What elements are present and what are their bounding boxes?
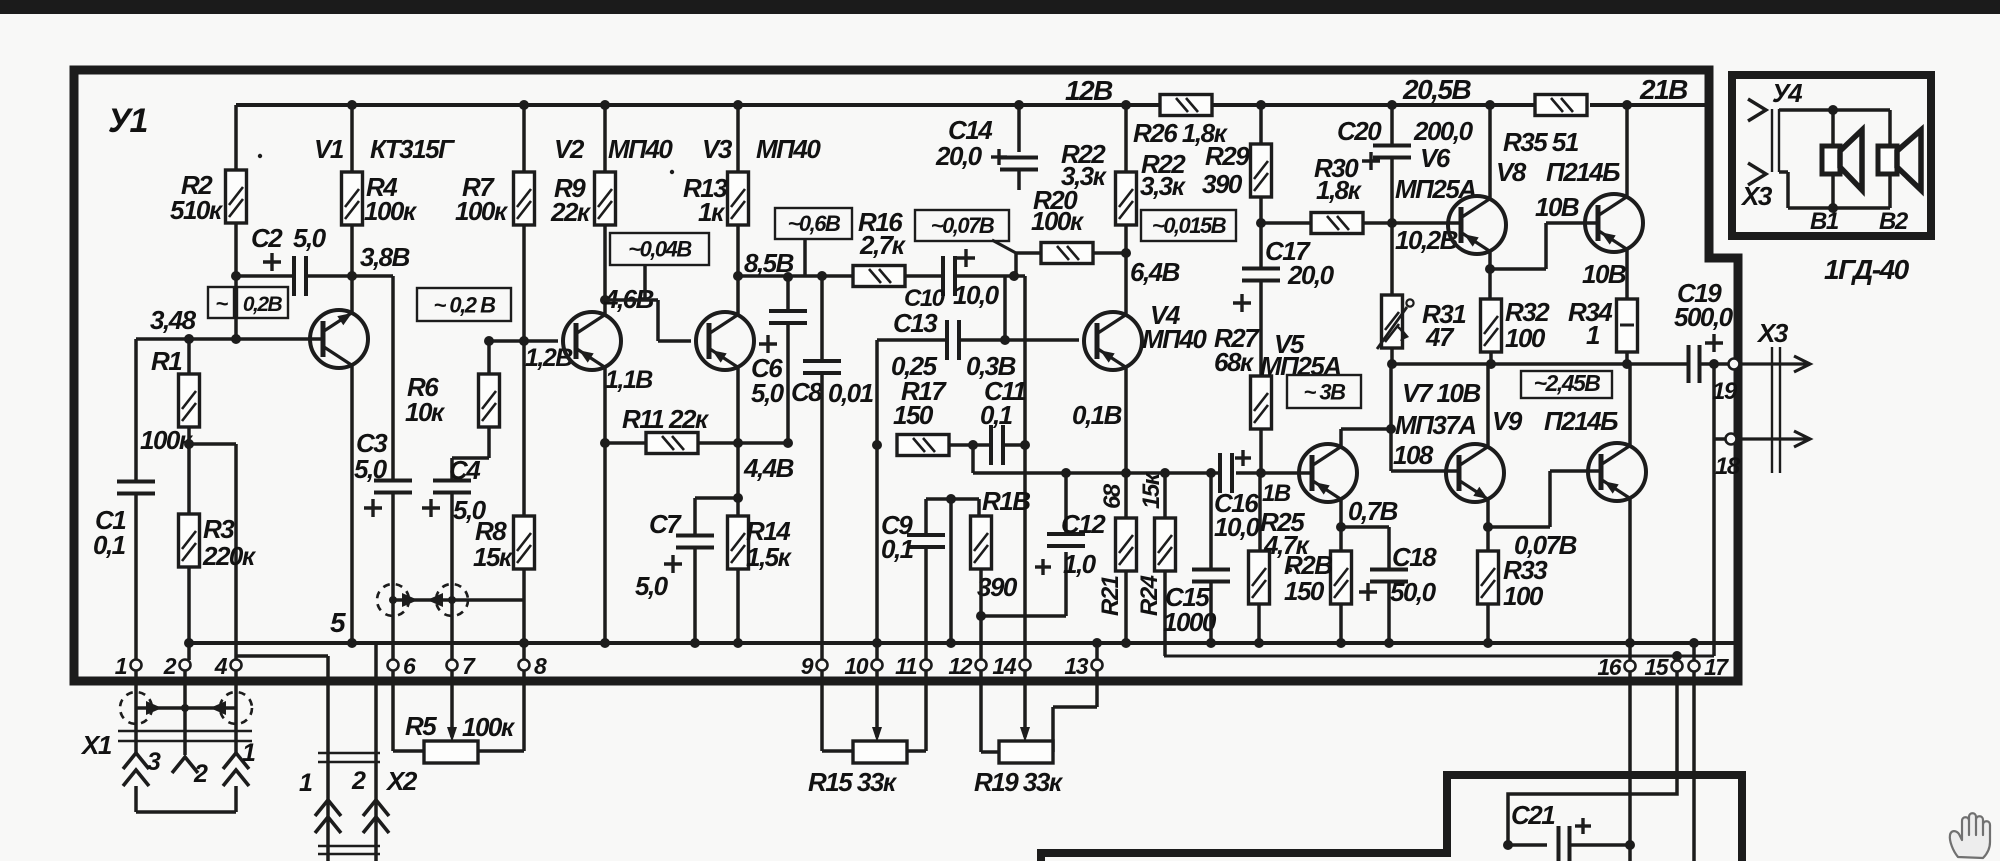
label R13 1k [683,173,728,227]
label C6 5,0 plus [751,335,785,408]
label R18 390 [977,486,1030,602]
node C11 left [968,440,978,450]
svg-text:10,0: 10,0 [1214,512,1261,542]
wire V7 base lead [1391,469,1459,473]
boxed label 0,2В [208,287,288,318]
svg-text:Х2: Х2 [385,766,418,796]
wire R22 branch from rail [1124,105,1128,172]
svg-text:6,4В: 6,4В [1130,257,1180,287]
svg-text:1,2В: 1,2В [525,344,573,372]
pin 1 circle [131,660,142,671]
wire C20 branch from rail [1390,105,1394,146]
node R14 bus [733,638,743,648]
wire R8 bottom to contact [522,569,526,660]
wire R11 right lead [698,441,788,445]
label C14 20,0 plus [935,115,1007,171]
wire 0,04V box stub [643,265,647,300]
svg-text:R15 33к: R15 33к [808,767,898,797]
wire V2 base line [489,339,558,343]
node R28 bus [1336,638,1346,648]
module box U1 border [74,70,1738,681]
wire C20 bottom to 10,2V node [1390,158,1394,223]
capacitor C20 [1373,146,1411,158]
svg-text:20,0: 20,0 [935,141,983,171]
node C7 tap [733,493,743,503]
capacitor C19 series [1689,345,1700,383]
svg-text:3,8В: 3,8В [360,242,410,272]
node R1/R3/pin4 junction [184,439,194,449]
arrow output 19 [1740,356,1810,372]
wire X1 contact link [136,706,236,710]
node C10 out [1009,271,1019,281]
svg-text:У1: У1 [108,102,148,140]
resistor R18 [971,516,992,569]
svg-text:0,1: 0,1 [93,530,126,560]
svg-text:15к: 15к [1138,471,1165,509]
label V4 MP40 [1142,300,1207,354]
label R2 510k [170,170,224,225]
svg-text:10к: 10к [405,397,446,427]
wire R1 top lead [187,339,191,374]
svg-text:R21: R21 [1097,575,1124,616]
svg-text:С18: С18 [1392,542,1437,572]
resistor R33 [1478,551,1499,604]
node 8,5V [733,271,743,281]
wire C19 out [1700,362,1728,366]
potentiometer R5 [424,727,478,763]
svg-text:~: ~ [215,291,228,316]
wire pin13 stub [1092,638,1102,660]
capacitor C2 [294,256,306,296]
wire R20 right lead [1093,251,1126,255]
node V2 emitter bus [600,638,610,648]
wire C17 bottom to R27 [1259,281,1263,376]
svg-text:МП40: МП40 [756,134,821,164]
wire B1 column [1831,110,1835,208]
capacitor C21 series [1559,826,1570,861]
svg-text:~ 3В: ~ 3В [1303,379,1346,404]
wire V3 emitter chain [736,367,740,516]
label R1 100k [140,346,194,455]
label C3 5,0 plus [354,428,388,517]
wire V2 emitter to bus [603,367,607,643]
node base/R1 junction [184,334,194,344]
node V4 emitter y473 [1121,468,1131,478]
potentiometer R19 [999,727,1053,763]
node rail/C14 [1014,100,1024,110]
capacitor C6 [769,311,807,323]
wire R2 bottom to base node [234,223,238,339]
wire V6 emitter [1488,249,1492,299]
arrow output 18 [1737,431,1810,447]
svg-text:5,0: 5,0 [354,454,388,484]
node R6 top [484,336,494,346]
wire R4 branch from rail [350,105,354,172]
svg-text:В1: В1 [1810,208,1839,235]
svg-text:R3: R3 [203,514,235,544]
capacitor C1 [117,482,155,494]
wire pin15 path to C21 [1508,671,1677,845]
svg-text:3,48: 3,48 [150,305,197,335]
wire R24 top lead [1163,473,1167,518]
wire R31 bottom lead [1390,348,1394,364]
pin 2 circle [180,660,191,671]
label C11 0,1 0,3В [966,351,1026,430]
wire pin4 jog to X2 [236,656,328,861]
transistor V4 [1084,312,1142,370]
svg-text:R1: R1 [151,346,182,376]
hand cursor [1950,813,1990,858]
label C8 0,01 [791,377,874,408]
contact switch right circle [436,584,468,616]
svg-text:3,3к: 3,3к [1140,171,1187,201]
wire R17 right to C11 [949,443,991,447]
wire V6 to V8 base jog [1490,223,1598,269]
node C19 out [1709,359,1719,369]
svg-text:V2: V2 [554,134,585,164]
svg-text:Х3: Х3 [1756,318,1789,348]
wire R28 leads [1339,527,1343,643]
label C16 10,0 plus [1214,450,1261,542]
wire R21 bottom to bus [1124,571,1128,643]
boxed label ~0,2 В [417,288,511,321]
node R18/C12 link [976,611,986,621]
wire R1 bottom to R3 top [187,427,191,514]
wire pin2 tail [183,670,187,755]
node C11 right [1020,440,1030,450]
label V6 MP25A [1395,143,1476,204]
svg-text:~0,07В: ~0,07В [931,213,995,238]
node C15 bus [1206,638,1216,648]
speck [1288,568,1292,572]
pin 18 circle [1726,434,1737,445]
pin 19 circle [1729,359,1740,370]
speaker input arrow bottom [1748,163,1766,185]
node R34/V9 output [1622,359,1632,369]
svg-text:R29: R29 [1205,141,1250,171]
node speaker bottom [1828,203,1838,213]
contact X1 right circle [220,692,252,724]
resistor R21 [1116,518,1137,571]
svg-text:4,4В: 4,4В [743,453,794,483]
pin 15 circle [1672,661,1683,672]
wire ground bus (node 5 line) [185,641,1736,645]
connector X2 cable upper [318,753,380,762]
node C15 top [1206,468,1216,478]
wire R31 top lead [1390,223,1394,295]
transistor V8 [1585,194,1643,252]
svg-text:0,1В: 0,1В [1072,400,1122,430]
capacitor C8 [803,361,841,373]
svg-text:0,01: 0,01 [828,378,874,408]
node 5 on bus [347,638,357,648]
svg-text:47: 47 [1425,322,1455,352]
wire pin6 to R5 [393,670,424,751]
wire V1 emitter to bus [350,365,354,643]
node 10,2V feed [1256,218,1266,228]
node R17 bus [872,638,882,648]
svg-text:19: 19 [1712,378,1738,405]
svg-text:16: 16 [1597,654,1621,680]
wire feedback down to pin 14 [1023,445,1027,660]
svg-text:С21: С21 [1511,800,1555,830]
svg-text:100к: 100к [462,712,516,742]
pin 13 circle [1092,660,1103,671]
wire C8 down to pin 9 [820,374,824,660]
node C8 top [817,271,827,281]
resistor R25 [1249,551,1270,604]
wire R32 bottom [1489,352,1493,364]
label V5 MP25A [1260,329,1341,381]
pin 9 circle [817,660,828,671]
wire pin4 riser [189,444,236,660]
speaker cable pair [1772,109,1779,172]
node bus left end [184,638,194,648]
svg-text:~0,04В: ~0,04В [628,237,692,262]
svg-text:0,1: 0,1 [881,534,914,564]
svg-text:П214Б: П214Б [1544,406,1618,436]
label V8 P214B [1496,157,1620,187]
pin 11 circle [921,660,932,671]
wire R9 branch from rail [603,105,607,172]
wire C14 stub [1017,170,1021,190]
node V7 emitter [1483,522,1493,532]
node V5 collector join [1386,424,1396,434]
svg-text:У4: У4 [1772,78,1803,108]
node V2 base divider [519,336,529,346]
label V1 KT315G [314,134,455,164]
svg-text:100к: 100к [140,425,194,455]
contact switch left circle [377,584,409,616]
svg-text:500,0: 500,0 [1674,302,1734,332]
node 0,7V [1336,522,1346,532]
wire V2 to V3 base jog [605,300,691,341]
pin 7 circle [447,660,458,671]
label R16 2,7k [858,207,907,260]
transistor V9 [1588,443,1646,501]
svg-text:21В: 21В [1639,74,1688,105]
resistor R17 [897,435,949,456]
wire lower bus to pin 18 [1164,655,1714,658]
resistor R20 [1041,243,1093,264]
wire R30 right lead [1363,221,1392,225]
wire R7 branch from rail [522,105,526,172]
contact arrowheads [389,593,456,607]
svg-text:П214Б: П214Б [1546,157,1620,187]
wire V4 emitter chain [1124,367,1128,518]
resistor R35 inline [1535,95,1587,116]
wire C7 down to bus [693,548,697,643]
svg-text:9: 9 [801,653,814,679]
speck [670,170,674,174]
capacitor C11 [991,425,1003,465]
svg-text:15к: 15к [473,542,514,572]
node R33 bus [1483,638,1493,648]
node C21 right [1625,840,1635,850]
svg-text:1,1В: 1,1В [605,366,653,394]
svg-text:R1В: R1В [982,486,1030,516]
wire V6 collector to rail [1488,105,1492,201]
svg-text:R5: R5 [405,711,437,741]
node rail/R13 [733,100,743,110]
cable X3 pair [1772,347,1780,473]
svg-text:5,0: 5,0 [453,495,487,525]
svg-text:1: 1 [242,739,255,767]
node R17 left [872,440,882,450]
resistor R11 [646,433,698,454]
wire C10 right to bend [955,276,1025,445]
label C10 10,0 plus [904,249,1000,312]
X1 pin1 chevrons [223,753,249,786]
svg-text:11: 11 [895,653,917,679]
resistor R30 [1311,213,1363,234]
wire C6 riser [786,277,790,311]
transistor V3 [696,312,754,370]
node rail/V6 [1485,100,1495,110]
wire R3 bottom to bus [187,567,191,660]
X2 line2 chevrons [363,800,389,833]
svg-text:390: 390 [977,572,1018,602]
wire C15 top lead [1209,473,1213,569]
node rail/R22 [1121,100,1131,110]
svg-text:~ 0,2 В: ~ 0,2 В [433,292,496,317]
wire pin7 wiper [450,670,454,737]
wire V7 base column [1389,364,1393,471]
wire R25 bottom to bus [1257,604,1261,643]
resistor R7 [514,172,535,225]
label 68 / R21 rotated [1097,483,1126,616]
svg-text:1: 1 [299,769,312,797]
svg-text:1к: 1к [698,197,726,227]
node R21 bus [1121,638,1131,648]
wire 8,5V line right [738,274,853,278]
node base/C2 junction [231,334,241,344]
pin 17 circle [1689,661,1700,672]
svg-text:С20: С20 [1337,116,1382,146]
X1 contact arrowheads [146,701,226,715]
loudspeaker B1 [1822,130,1862,190]
wire C21 right [1570,843,1630,847]
label R3 220k [202,514,257,571]
transistor V1 [310,310,368,368]
wire C15 bottom to bus [1209,582,1213,643]
svg-text:220к: 220к [202,541,257,571]
svg-text:1ГД-40: 1ГД-40 [1824,254,1910,285]
svg-text:100к: 100к [455,196,509,226]
svg-text:14: 14 [992,653,1016,679]
node speaker B1 top [1828,105,1838,115]
pin 16 circle [1625,661,1636,672]
wire C13 left drop [875,340,879,660]
svg-text:Х1: Х1 [80,730,112,760]
transistor V5 [1299,444,1357,502]
svg-text:~0,6В: ~0,6В [788,211,841,236]
label R14 1,5k [746,516,793,572]
X1 pin3 chevrons [123,753,149,786]
svg-text:100к: 100к [1031,206,1085,236]
wire C18 link [1341,527,1389,569]
svg-text:V1: V1 [314,134,344,164]
label R9 22k [550,173,592,227]
svg-text:С4: С4 [449,455,481,485]
svg-text:КТ315Г: КТ315Г [370,134,455,164]
wire C1 to pin 1 [134,494,138,660]
svg-text:68к: 68к [1214,347,1255,377]
wire X2 line 2 [374,643,378,861]
svg-text:0,2В: 0,2В [243,293,283,316]
wire R6 top lead [487,341,491,374]
wire C11 right lead [1003,443,1025,447]
pin 14 circle [1020,660,1031,671]
label R28 150 [1284,550,1332,606]
svg-text:5,0: 5,0 [635,571,669,601]
wire V9 collector [1628,364,1632,448]
svg-text:1000: 1000 [1163,607,1217,637]
svg-text:100к: 100к [364,196,418,226]
label R6 10k [405,372,446,427]
wire top supply rail [236,103,1709,107]
svg-text:С2: С2 [251,223,283,253]
svg-text:1,0: 1,0 [1063,549,1097,579]
wire V8 collector to rail [1625,105,1629,199]
node C6 bottom [783,438,793,448]
svg-text:10В: 10В [1535,192,1579,222]
wire pin8 to R5 [478,670,524,751]
wire output line [1392,362,1688,366]
wire V6 base lead [1392,221,1461,225]
svg-text:10В: 10В [1582,259,1626,289]
capacitor C4 [433,481,471,493]
svg-text:R19 33к: R19 33к [974,767,1064,797]
wire C13 to V4 base [959,338,1079,342]
boxed label ~2,45В [1521,370,1612,398]
svg-text:5,0: 5,0 [293,223,327,253]
svg-text:12: 12 [948,653,972,679]
svg-text:200,0: 200,0 [1413,116,1474,146]
wire speaker bottom [1779,172,1890,208]
svg-text:2,7к: 2,7к [859,230,907,260]
resistor R27 [1251,376,1272,429]
capacitor C13 [947,320,959,360]
label V2 MP40 [554,134,673,164]
node 10,2V [1387,218,1397,228]
svg-text:С13: С13 [893,308,938,338]
label R25 4,7k [1260,507,1311,560]
resistor R1 [179,374,200,427]
capacitor C7 [676,536,714,548]
label R8 15k [473,516,514,572]
svg-text:1: 1 [115,653,127,679]
svg-text:МП40: МП40 [608,134,673,164]
X2 line1 chevrons [315,800,341,833]
svg-text:10,0: 10,0 [953,280,1000,310]
speaker input arrow top [1748,99,1766,121]
node C12 top [1061,468,1071,478]
wire R11 left lead [605,441,646,445]
label R7 100k [455,172,509,226]
node V9 bus [1625,638,1635,648]
svg-text:50,0: 50,0 [1390,577,1437,607]
resistor R28 [1331,551,1352,604]
wire 0,07V box stub / R20 tap [992,240,1041,339]
node C18 bus [1384,638,1394,648]
node R8 bus [519,638,529,648]
lower unit box border [1041,775,1742,861]
wire pin14 wiper [1023,670,1027,737]
label R5 100k [405,711,516,742]
boxed label ~0,04В [610,233,709,265]
wire V4 base line [877,338,947,342]
